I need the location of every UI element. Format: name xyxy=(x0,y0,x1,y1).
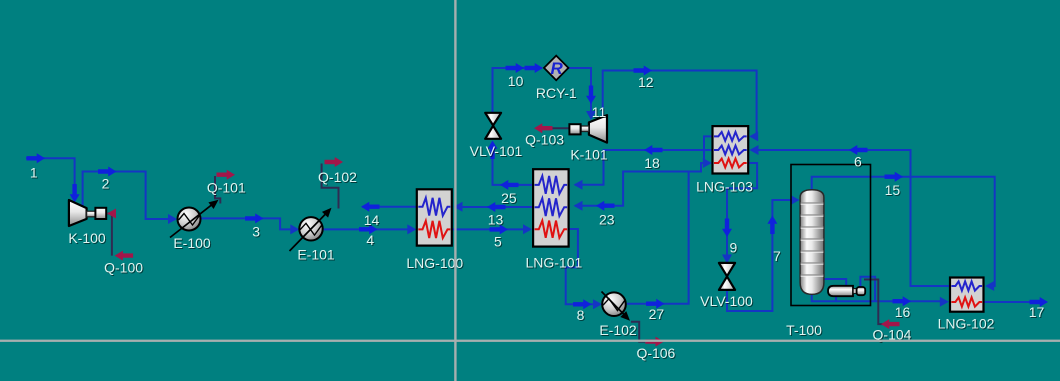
svg-text:12: 12 xyxy=(638,74,654,90)
wire stream 17 xyxy=(984,297,1049,307)
svg-text:5: 5 xyxy=(494,233,502,249)
recycle RCY-1 xyxy=(544,56,568,81)
wire LNG-103 pass link xyxy=(704,136,713,163)
svg-text:13: 13 xyxy=(488,212,504,228)
wire stream 14 xyxy=(361,202,417,212)
svg-text:1: 1 xyxy=(30,164,38,180)
wire stream 23 xyxy=(574,172,689,211)
svg-text:7: 7 xyxy=(773,248,781,264)
svg-text:Q-106: Q-106 xyxy=(636,345,675,361)
wire stream 6 xyxy=(750,145,951,286)
wire stream 2 xyxy=(83,167,177,225)
wire stream 27 xyxy=(627,158,712,309)
LNG exchanger LNG-103 xyxy=(713,126,749,173)
svg-text:4: 4 xyxy=(366,232,374,248)
wire stream 1 xyxy=(26,153,80,202)
svg-text:K-101: K-101 xyxy=(570,147,608,163)
wire stream 10 xyxy=(493,63,544,113)
energy stream Q-103 xyxy=(534,123,569,133)
svg-text:14: 14 xyxy=(364,212,380,228)
wire stream 9 xyxy=(722,163,757,264)
LNG exchanger LNG-101 xyxy=(533,169,569,246)
wire stream 13 xyxy=(454,202,534,212)
svg-text:15: 15 xyxy=(885,182,901,198)
wire stream 8 xyxy=(566,229,602,309)
energy stream Q-104 xyxy=(864,280,900,330)
cooler E-100 xyxy=(170,196,221,237)
wire stream 11 xyxy=(568,68,596,120)
valve VLV-101 xyxy=(485,113,501,139)
energy stream Q-106 xyxy=(631,322,664,347)
energy stream Q-101 xyxy=(215,170,235,204)
svg-text:25: 25 xyxy=(501,190,517,206)
svg-text:3: 3 xyxy=(252,223,260,239)
svg-text:VLV-101: VLV-101 xyxy=(470,143,523,159)
wire stream 16 and column bottoms xyxy=(812,294,949,307)
wire stream 5 xyxy=(452,224,532,234)
wire stream 7 xyxy=(727,195,800,311)
svg-text:11: 11 xyxy=(592,104,607,120)
LNG exchanger LNG-102 xyxy=(950,278,984,312)
wire stream 18 xyxy=(574,145,713,190)
svg-text:R: R xyxy=(550,59,563,78)
svg-text:8: 8 xyxy=(577,307,585,323)
wire stream 4 xyxy=(323,224,417,234)
svg-text:27: 27 xyxy=(649,306,665,322)
valve VLV-100 xyxy=(719,263,735,290)
svg-text:23: 23 xyxy=(599,212,615,228)
reboiler drum T-100 xyxy=(828,286,865,296)
svg-text:2: 2 xyxy=(102,175,110,191)
svg-text:Q-102: Q-102 xyxy=(318,169,357,185)
compressor K-100 xyxy=(69,200,106,226)
svg-text:16: 16 xyxy=(895,304,911,320)
energy stream Q-102 xyxy=(322,157,343,209)
column tower T-100 xyxy=(800,190,824,295)
cooler E-102 xyxy=(602,292,633,324)
svg-text:10: 10 xyxy=(508,73,524,89)
svg-text:K-100: K-100 xyxy=(68,230,106,246)
svg-text:VLV-100: VLV-100 xyxy=(700,293,753,309)
svg-text:LNG-102: LNG-102 xyxy=(938,316,995,332)
wire stream 15 xyxy=(812,172,995,291)
compressor K-101 xyxy=(569,115,607,142)
svg-text:E-101: E-101 xyxy=(297,246,335,262)
svg-text:9: 9 xyxy=(730,239,738,255)
svg-text:Q-103: Q-103 xyxy=(525,132,564,148)
wire stream 3 xyxy=(201,213,300,234)
svg-text:LNG-103: LNG-103 xyxy=(696,179,753,195)
energy stream Q-100 xyxy=(107,209,133,261)
column boundary T-100 xyxy=(791,165,871,306)
svg-text:T-100: T-100 xyxy=(786,322,822,338)
svg-text:LNG-101: LNG-101 xyxy=(525,254,582,270)
svg-text:E-102: E-102 xyxy=(599,322,637,338)
wire reboiler return xyxy=(824,277,875,301)
splitter horizontal xyxy=(0,340,1060,342)
svg-text:17: 17 xyxy=(1029,304,1045,320)
LNG exchanger LNG-100 xyxy=(417,189,452,245)
svg-text:Q-100: Q-100 xyxy=(104,259,143,275)
wire stream 25 xyxy=(488,141,534,190)
svg-text:6: 6 xyxy=(854,154,862,170)
splitter vertical xyxy=(454,0,456,381)
cooler E-101 xyxy=(290,205,335,251)
svg-text:Q-101: Q-101 xyxy=(207,180,246,196)
svg-text:RCY-1: RCY-1 xyxy=(536,85,577,101)
svg-text:18: 18 xyxy=(644,155,660,171)
wire stream 12 xyxy=(603,66,759,142)
svg-text:E-100: E-100 xyxy=(173,235,211,251)
